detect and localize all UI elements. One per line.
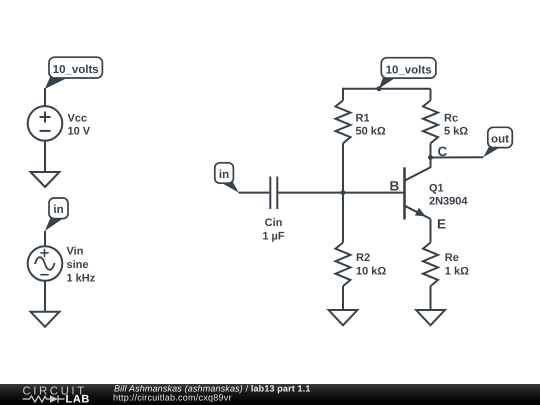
svg-text:R2: R2 — [356, 252, 370, 264]
label Re 1 kΩ — [445, 252, 469, 278]
label Q1 2N3904 — [429, 182, 468, 207]
wire — [239, 192, 270, 194]
node B junction — [341, 190, 346, 195]
net label 10_volts (Vcc source) — [45, 57, 103, 89]
resistor Rc — [423, 89, 438, 158]
net label in (Vin source) — [45, 198, 68, 231]
label Cin 1 µF — [262, 217, 285, 243]
capacitor Cin — [270, 177, 277, 210]
node C — [428, 155, 433, 160]
label R2 10 kΩ — [356, 252, 386, 278]
wire — [430, 219, 432, 243]
net label 10_volts (rail) — [379, 58, 436, 89]
svg-text:50 kΩ: 50 kΩ — [356, 126, 386, 138]
wire — [44, 280, 46, 312]
ground — [31, 172, 60, 187]
resistor R1 — [336, 88, 351, 144]
svg-text:Cin: Cin — [265, 217, 283, 229]
wire — [44, 231, 46, 246]
svg-text:Vin: Vin — [67, 246, 84, 258]
svg-text:sine: sine — [67, 259, 89, 271]
resistor Re — [423, 243, 438, 311]
transistor Q1 — [405, 158, 431, 220]
voltage source Vin — [28, 246, 63, 281]
svg-text:LAB: LAB — [66, 394, 90, 405]
ground — [416, 310, 445, 325]
svg-text:Rc: Rc — [444, 113, 458, 125]
svg-text:10_volts: 10_volts — [53, 64, 99, 76]
CircuitLab logo schematic line — [23, 395, 65, 402]
svg-text:out: out — [491, 134, 509, 146]
wire — [343, 192, 405, 194]
wire — [44, 140, 46, 172]
svg-text:B: B — [390, 179, 400, 194]
node junction (rail) — [377, 86, 382, 91]
svg-text:in: in — [219, 169, 229, 181]
svg-text:Q1: Q1 — [429, 182, 444, 194]
wire (top rail) — [343, 88, 431, 90]
svg-text:E: E — [437, 217, 446, 232]
svg-text:10 kΩ: 10 kΩ — [356, 266, 386, 278]
label Rc 5 kΩ — [444, 113, 468, 138]
wire — [44, 88, 46, 106]
wire — [278, 192, 343, 194]
svg-text:1 µF: 1 µF — [262, 231, 285, 243]
svg-text:10_volts: 10_volts — [386, 64, 432, 76]
net label out — [483, 127, 512, 157]
svg-text:10 V: 10 V — [68, 126, 91, 138]
wire — [342, 193, 344, 243]
svg-text:http://circuitlab.com/cxq89vr: http://circuitlab.com/cxq89vr — [113, 393, 232, 403]
resistor R2 — [336, 243, 351, 311]
svg-text:1 kΩ: 1 kΩ — [445, 266, 469, 278]
voltage source Vcc — [28, 106, 63, 141]
label Vin sine 1 kHz — [67, 246, 96, 285]
svg-text:1 kHz: 1 kHz — [67, 273, 96, 285]
svg-text:Re: Re — [445, 252, 459, 264]
wire — [342, 143, 344, 192]
label R1 50 kΩ — [356, 113, 386, 138]
label Vcc 10 V — [68, 113, 91, 138]
net label in (amplifier input) — [215, 163, 239, 193]
svg-text:2N3904: 2N3904 — [429, 196, 468, 208]
svg-text:Vcc: Vcc — [68, 113, 88, 125]
svg-text:5 kΩ: 5 kΩ — [444, 126, 468, 138]
svg-text:in: in — [53, 204, 63, 216]
svg-text:R1: R1 — [356, 113, 370, 125]
ground — [329, 310, 358, 325]
ground — [31, 312, 60, 327]
wire — [431, 156, 484, 158]
